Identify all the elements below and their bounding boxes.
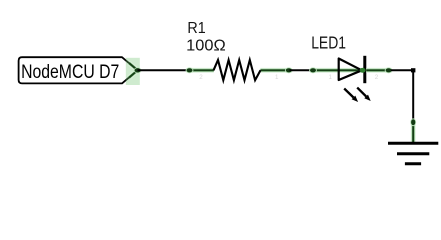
- resistor R1 left lead halo: [188, 68, 214, 73]
- LED1 left lead halo: [312, 68, 365, 73]
- resistor R1 right lead halo: [260, 68, 290, 73]
- LED1 right lead halo: [366, 68, 391, 73]
- wire bend node: [411, 68, 415, 72]
- wire LED to ground (vertical): [412, 70, 414, 122]
- ground lead: [412, 121, 414, 143]
- LED1 right lead: [366, 69, 391, 71]
- LED light arrow 2: [357, 88, 371, 101]
- ground bar 2: [397, 152, 429, 155]
- LED1 triangle (anode): [339, 59, 362, 81]
- port NodeMCU D7: [19, 57, 138, 83]
- LED1 left lead: [312, 69, 365, 71]
- ground lead halo: [411, 121, 416, 143]
- node: ground terminal: [410, 118, 416, 126]
- resistor R1 right lead: [260, 69, 290, 71]
- LED1 cathode bar: [363, 56, 366, 83]
- node: LED left terminal: [309, 67, 317, 73]
- svg-text:2: 2: [375, 74, 379, 81]
- node: port terminal dot: [134, 67, 142, 73]
- wire resistor to LED: [290, 69, 314, 71]
- node: resistor left terminal: [186, 67, 194, 73]
- wire port to resistor: [138, 69, 190, 71]
- ground bar 1: [388, 142, 438, 145]
- pin highlight (green) on port tip: [126, 58, 140, 85]
- wire LED to ground (horizontal): [391, 69, 413, 71]
- svg-text:NodeMCU D7: NodeMCU D7: [21, 61, 119, 83]
- LED light arrow 1: [344, 89, 358, 103]
- ground bar 3: [405, 162, 421, 165]
- svg-text:100Ω: 100Ω: [186, 38, 226, 55]
- node: LED right terminal: [385, 67, 393, 73]
- resistor R1 left lead: [188, 69, 214, 71]
- svg-text:1: 1: [275, 74, 279, 81]
- svg-text:2: 2: [199, 74, 203, 81]
- port pin chevron (green): [129, 63, 138, 78]
- node: LED anode junction: [360, 68, 366, 73]
- node: resistor right terminal: [285, 67, 293, 73]
- svg-text:R1: R1: [187, 20, 205, 37]
- svg-text:LED1: LED1: [311, 33, 346, 53]
- svg-text:1: 1: [329, 74, 333, 81]
- resistor R1 body: [214, 60, 261, 80]
